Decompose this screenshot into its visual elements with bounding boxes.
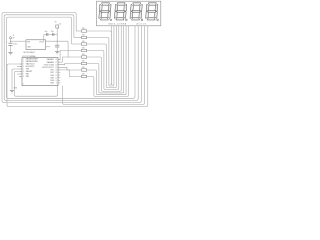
- svg-text:16: 16: [55, 64, 57, 66]
- display DIS1 4-digit 7-segment: [97, 1, 161, 26]
- svg-text:VOUT: VOUT: [39, 42, 44, 44]
- svg-text:22p: 22p: [45, 31, 48, 33]
- svg-text:A561G: A561G: [137, 22, 147, 25]
- wire IC1 VOUT rail: [46, 41, 69, 58]
- svg-text:13: 13: [55, 72, 57, 74]
- svg-text:9: 9: [23, 84, 24, 86]
- IC1 voltage regulator 78L05: [24, 40, 46, 54]
- svg-text:12: 12: [55, 75, 57, 77]
- ground: [10, 69, 22, 93]
- svg-text:RB2: RB2: [26, 76, 29, 78]
- wire bottom bus outer nets to display right pins: [2, 26, 141, 103]
- wire ground net MCU left pin to MCU bottom pin: [14, 72, 58, 97]
- svg-text:100u: 100u: [13, 44, 17, 46]
- capacitors C3 C4 22p: [44, 31, 57, 41]
- ground: [8, 52, 12, 55]
- svg-text:10: 10: [55, 80, 57, 82]
- svg-text:470: 470: [82, 74, 85, 76]
- svg-text:470: 470: [82, 67, 85, 69]
- svg-text:470: 470: [82, 61, 85, 63]
- capacitor C1 100u: [6, 42, 17, 46]
- wire routed nets left edge and top to rows 1-3: [2, 13, 76, 101]
- svg-text:18: 18: [55, 59, 57, 61]
- svg-text:22p: 22p: [51, 31, 54, 33]
- svg-text:470: 470: [82, 54, 85, 56]
- wires digit common nets MCU left pins to display right pins: [7, 26, 148, 107]
- svg-text:RA1/AN1: RA1/AN1: [47, 58, 54, 61]
- crystal Q1: [55, 21, 62, 41]
- svg-text:X1: X1: [59, 23, 61, 25]
- IC2 microcontroller PIC16F84: [17, 55, 60, 86]
- svg-text:11: 11: [55, 77, 57, 79]
- connector J1 +9V input: [9, 35, 15, 52]
- svg-text:14: 14: [55, 70, 57, 72]
- svg-text:470: 470: [82, 28, 85, 30]
- svg-text:RA0/AN0: RA0/AN0: [47, 61, 54, 64]
- svg-text:+: +: [6, 42, 7, 44]
- svg-text:BA56-12GWA: BA56-12GWA: [109, 22, 127, 25]
- svg-text:470: 470: [82, 35, 85, 37]
- svg-text:17: 17: [55, 62, 57, 64]
- svg-text:470: 470: [82, 48, 85, 50]
- svg-text:J1: J1: [13, 35, 15, 37]
- wires segment nets resistors to display: [58, 26, 129, 97]
- wire IC1 GND pin: [46, 46, 51, 48]
- svg-text:MC78L05ACP: MC78L05ACP: [24, 51, 36, 54]
- ground: [55, 51, 59, 54]
- svg-text:15: 15: [55, 67, 57, 69]
- capacitor C2: [55, 41, 59, 51]
- wire J1 to IC1 VIN: [10, 41, 26, 42]
- svg-text:470: 470: [82, 41, 85, 43]
- resistors R1-R8 with labels: [82, 28, 87, 78]
- svg-text:RB3: RB3: [51, 83, 54, 85]
- svg-text:IC2 PIC16F84A: IC2 PIC16F84A: [22, 55, 36, 58]
